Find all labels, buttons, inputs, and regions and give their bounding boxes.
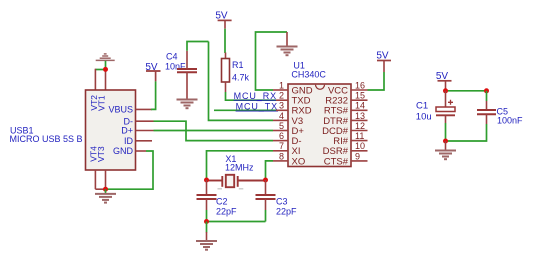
capacitor C2 (197, 195, 217, 199)
svg-text:MCU_RX: MCU_RX (234, 91, 277, 101)
notch (316, 85, 325, 90)
pin 13 stub (DTR#) (351, 119, 368, 121)
wire GND pin down to bottom junction (106, 151, 154, 189)
svg-text:5V: 5V (376, 50, 389, 61)
wire C2 bottom (206, 210, 208, 222)
svg-text:8: 8 (279, 151, 284, 161)
svg-text:MICRO USB 5S B: MICRO USB 5S B (10, 134, 83, 144)
plus mark C1 (448, 100, 453, 105)
svg-text:XO: XO (292, 156, 306, 167)
svg-text:C4: C4 (166, 52, 178, 62)
pin 16 stub (VCC) (351, 89, 368, 91)
svg-text:12: 12 (355, 121, 365, 131)
junction dot bottom of USB1 (103, 187, 108, 192)
svg-text:GND: GND (113, 146, 134, 156)
pin VT4 (bottom-left stub) (94, 170, 96, 189)
junction dot 5V left (443, 88, 448, 93)
crystal case marks (218, 188, 244, 190)
wire MCU_TX to pin 3 (214, 109, 276, 111)
wire C5 top (486, 91, 488, 101)
op-amp body: IC U1 (288, 84, 351, 167)
pin 1 stub (GND) (273, 89, 288, 91)
svg-text:ID: ID (124, 136, 134, 146)
capacitor C4 (177, 69, 197, 72)
svg-text:15: 15 (355, 91, 365, 101)
svg-text:6: 6 (279, 131, 284, 141)
svg-text:1: 1 (279, 80, 284, 90)
pin VT2 (top-left stub) (94, 69, 96, 90)
pin 7 stub (XI) (273, 150, 288, 152)
svg-text:3: 3 (279, 101, 284, 111)
junction dot gnd bus (443, 139, 448, 144)
pin stub VBUS (136, 108, 153, 110)
pin VT3 (bottom-right stub) (105, 170, 107, 189)
pin stub GND (136, 150, 147, 152)
pin stub C4 top (186, 51, 188, 69)
wire V3 vertical down to pin 4 (209, 42, 274, 121)
junction dot crystal right (263, 178, 268, 183)
junction dot crystal left (204, 178, 209, 183)
ground below USB1 (95, 194, 116, 203)
svg-text:14: 14 (355, 101, 365, 111)
pin 8 stub (XO) (273, 160, 288, 162)
pin stub C4 bottom (186, 72, 188, 99)
svg-text:22pF: 22pF (276, 206, 297, 216)
svg-text:9: 9 (355, 151, 360, 161)
pin 10 stub (DSR#) (351, 150, 368, 152)
capacitor C1 (electrolytic) (436, 107, 455, 112)
pin stub C2 bottom (206, 199, 208, 210)
ground (crystal) (196, 241, 217, 250)
svg-text:5: 5 (279, 121, 284, 131)
wire from junction to left top pin (95, 69, 105, 71)
pin 12 stub (DCD#) (351, 130, 368, 132)
ground (inverted) above USB1 (96, 54, 115, 61)
ground below C4 (177, 100, 198, 109)
pin stub C5 bottom (486, 114, 488, 124)
svg-text:7: 7 (279, 141, 284, 151)
svg-text:MCU_TX: MCU_TX (236, 102, 278, 112)
svg-text:2: 2 (279, 91, 284, 101)
pin 9 stub (CTS#) (351, 160, 368, 162)
svg-text:100nF: 100nF (497, 116, 523, 126)
wire stem from top ground to junction (105, 61, 107, 70)
svg-text:C2: C2 (216, 196, 228, 206)
wire C1 bottom (445, 123, 447, 141)
wire C5 bottom to gnd bus (446, 124, 487, 141)
pin stub C2 top (206, 180, 208, 195)
wire 5V to VBUS (151, 81, 156, 109)
pin stub D+ (136, 130, 154, 132)
pin stub R1 top (225, 53, 227, 59)
power flag 5V (VCC) (383, 61, 385, 73)
pin stub C1 bottom (445, 115, 447, 123)
svg-text:12MHz: 12MHz (225, 162, 254, 172)
pin 14 stub (RTS#) (351, 109, 368, 111)
svg-text:R1: R1 (232, 60, 244, 70)
svg-text:22pF: 22pF (216, 206, 237, 216)
wire pin16 to 5V (368, 72, 385, 90)
pin VT1 (top-right stub) (105, 69, 107, 90)
wire stem to crystal ground (206, 222, 208, 233)
svg-text:VT1: VT1 (96, 95, 106, 111)
wire 5V to R1 (224, 29, 226, 53)
wire XI pin7 left and down (207, 151, 274, 180)
pin stub C1 top (445, 91, 447, 107)
pin stub ID (136, 140, 153, 142)
crystal X1 (207, 175, 266, 187)
svg-text:10: 10 (355, 141, 365, 151)
svg-text:4: 4 (279, 111, 284, 121)
junction dot top of USB1 (103, 67, 108, 72)
wire D- to pin 6 (154, 121, 274, 140)
connector USB1 body (86, 90, 136, 170)
svg-text:16: 16 (355, 80, 365, 90)
pin 6 stub (D-) (273, 140, 288, 142)
svg-text:CH340C: CH340C (291, 69, 326, 79)
junction dot 5V right (484, 88, 489, 93)
wire C3 bottom (265, 210, 267, 222)
pin stub D- (136, 120, 154, 122)
stem to ground (286, 32, 288, 46)
wire pin 1 GND up-over (256, 32, 288, 90)
pin 2 stub (TXD) (276, 99, 288, 101)
stem to right ground (445, 141, 447, 150)
wire bottom pins join (95, 188, 105, 190)
pin 5 stub (D+) (273, 130, 288, 132)
svg-text:11: 11 (355, 131, 364, 141)
ground (right cluster) (435, 151, 456, 160)
capacitor C3 (256, 195, 276, 199)
capacitor C5 (477, 110, 496, 114)
svg-text:VBUS: VBUS (108, 105, 133, 115)
svg-text:D+: D+ (121, 126, 133, 136)
pin 11 stub (RI#) (351, 140, 368, 142)
svg-text:CTS#: CTS# (324, 156, 349, 167)
wire bottom crystal bus (207, 221, 266, 223)
pin 3 stub (RXD) (276, 109, 288, 111)
pin 15 stub (R232) (351, 99, 368, 101)
pin stub R1 bottom (225, 82, 227, 92)
junction dot crystal bottom (204, 219, 209, 224)
stem red to ground (206, 232, 208, 241)
resistor R1 (222, 59, 230, 83)
svg-text:C1: C1 (416, 101, 428, 112)
wire R1 bottom to pin 2 (226, 92, 277, 100)
svg-text:13: 13 (355, 111, 365, 121)
pin stub C3 top (265, 180, 267, 195)
wire stem to bottom ground (105, 189, 107, 194)
wire 5V bus right (446, 90, 487, 92)
svg-text:VT3: VT3 (96, 146, 106, 162)
svg-text:4.7k: 4.7k (232, 72, 250, 82)
wire D+ to pin 5 (154, 130, 274, 132)
svg-text:C3: C3 (276, 196, 288, 206)
pin 4 stub (V3) (273, 119, 288, 121)
svg-text:10u: 10u (416, 111, 432, 122)
pin stub C3 bottom (265, 199, 267, 210)
wire C4 top to V3 vertical (187, 42, 209, 51)
wire XO pin8 left and down (266, 161, 274, 180)
ground (chip GND) (277, 47, 298, 56)
pin stub C5 top (486, 101, 488, 110)
